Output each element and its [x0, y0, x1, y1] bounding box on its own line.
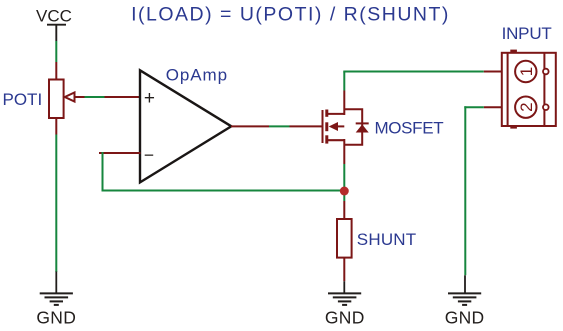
svg-text:POTI: POTI	[3, 90, 43, 109]
svg-text:GND: GND	[325, 308, 365, 328]
svg-text:+: +	[144, 88, 155, 109]
svg-text:VCC: VCC	[36, 7, 72, 26]
svg-text:1: 1	[517, 67, 536, 76]
svg-text:I(LOAD) = U(POTI) / R(SHUNT): I(LOAD) = U(POTI) / R(SHUNT)	[131, 3, 450, 25]
svg-text:INPUT: INPUT	[502, 24, 552, 43]
svg-text:−: −	[144, 145, 154, 165]
svg-text:MOSFET: MOSFET	[375, 118, 444, 137]
svg-text:OpAmp: OpAmp	[166, 66, 228, 85]
svg-text:2: 2	[517, 102, 536, 111]
svg-text:GND: GND	[445, 308, 485, 328]
svg-text:SHUNT: SHUNT	[357, 230, 417, 249]
svg-text:GND: GND	[36, 308, 76, 328]
